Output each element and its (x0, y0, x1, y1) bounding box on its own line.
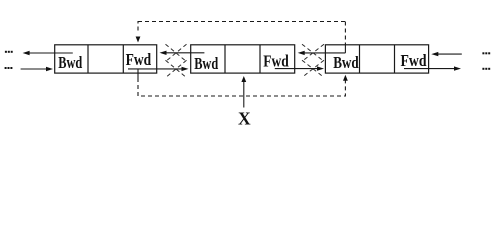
wire incoming arrow into N3 from right (434, 53, 462, 55)
node N1 box (55, 45, 157, 73)
svg-text:X: X (238, 109, 251, 129)
wire N1.Fwd pointer to N2 (128, 68, 186, 70)
wire N2.Bwd pointer to N1 (163, 52, 204, 54)
node N3 box (325, 45, 428, 73)
dashed new pointer path top: N3.Bwd around to N1 (138, 22, 345, 45)
wire N3.Fwd pointer to right dots (404, 68, 455, 70)
wire N2.Fwd pointer to N3 (275, 68, 321, 70)
svg-text:Fwd: Fwd (401, 51, 427, 70)
left ellipsis dots bottom row (5, 67, 13, 69)
svg-text:Bwd: Bwd (194, 54, 218, 73)
wire N3.Bwd pointer to N2 (with elbow from dashed path) (301, 45, 345, 53)
X cross-out marks on links between N1 and N2 (upper) (166, 44, 187, 61)
svg-text:Fwd: Fwd (263, 51, 289, 70)
X cross-out marks on links between N2 and N3 (lower) (302, 60, 324, 77)
arrow from label X up to node N2 (243, 79, 245, 108)
dashed new pointer path bottom: N1.Fwd around to N3 (137, 69, 139, 78)
wire incoming arrow into N1 from left (21, 68, 47, 70)
svg-text:Bwd: Bwd (333, 53, 359, 72)
right ellipsis dots top row (482, 52, 490, 54)
wire N1.Bwd pointer to left dots (25, 52, 73, 54)
svg-text:Bwd: Bwd (58, 53, 82, 72)
left ellipsis dots top row (5, 51, 13, 53)
right ellipsis dots bottom row (482, 68, 490, 70)
node N2 box (191, 45, 295, 73)
X cross-out marks on links between N1 and N2 (lower) (166, 60, 187, 77)
X cross-out marks on links between N2 and N3 (upper) (302, 44, 324, 61)
svg-text:Fwd: Fwd (126, 50, 152, 69)
